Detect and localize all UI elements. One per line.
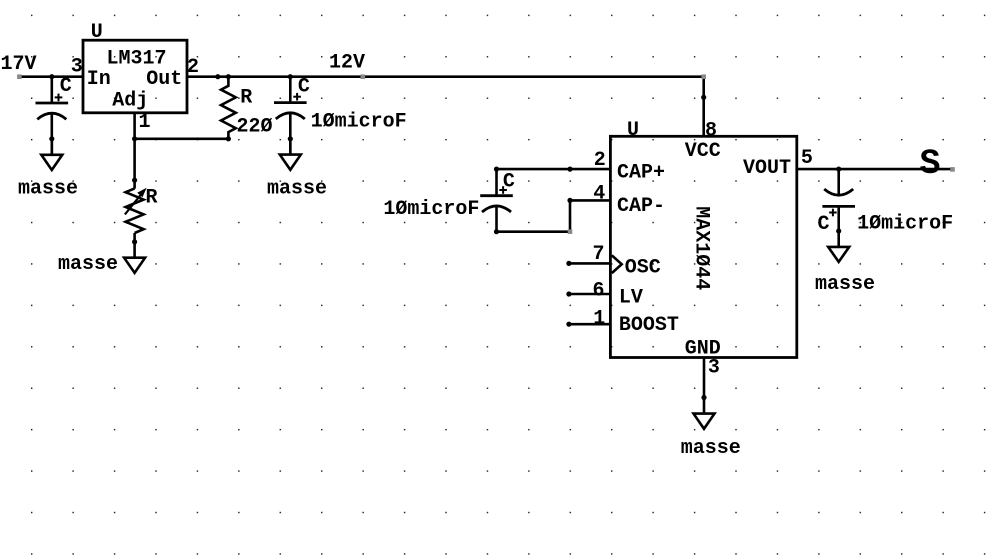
svg-text:In: In [87, 68, 111, 91]
svg-text:U: U [91, 21, 103, 44]
junction C3 bottom [494, 229, 499, 234]
wire end marker S [950, 167, 955, 172]
junction RV1 bottom [132, 239, 137, 244]
pin 7 end dot [566, 261, 571, 266]
svg-text:5: 5 [801, 147, 813, 170]
pin 4 wire CAP- [570, 199, 610, 202]
wire anchor marker 12V [361, 74, 366, 79]
junction C4 top [836, 167, 841, 172]
svg-text:CAP-: CAP- [617, 195, 665, 218]
svg-text:3: 3 [708, 357, 720, 380]
svg-text:6: 6 [593, 280, 605, 303]
svg-text:1: 1 [593, 308, 605, 331]
pin 3 wire [703, 358, 706, 414]
pin 1 wire [569, 323, 611, 326]
junction capacitor C2 top [288, 74, 293, 79]
svg-text:3: 3 [71, 55, 83, 78]
capacitor C3 [480, 169, 513, 232]
junction C1 bottom [49, 136, 54, 141]
junction C2 bottom [288, 136, 293, 141]
svg-text:1: 1 [139, 111, 151, 134]
svg-text:Adj: Adj [112, 90, 148, 113]
wire VCC drop [702, 77, 705, 137]
wire C3 bottom to pin4 drop [497, 230, 571, 233]
svg-text:R: R [240, 87, 252, 110]
pin 2 wire CAP+ [497, 168, 611, 171]
junction pin4 corner [567, 198, 572, 203]
svg-text:LV: LV [619, 286, 643, 309]
svg-text:VOUT: VOUT [743, 157, 791, 180]
clock wedge OSC [612, 255, 622, 273]
svg-text:masse: masse [815, 273, 875, 296]
svg-text:BOOST: BOOST [619, 314, 679, 337]
svg-text:masse: masse [18, 178, 78, 201]
svg-text:22Ø: 22Ø [237, 115, 273, 138]
junction on Out wire [215, 74, 220, 79]
svg-text:1ØmicroF: 1ØmicroF [383, 198, 479, 221]
svg-text:R: R [146, 186, 158, 209]
wire pin4 vertical drop [569, 200, 572, 231]
wire end marker pin4 drop [568, 229, 573, 234]
junction pin2 wire over pin4 corner [567, 167, 572, 172]
ground G5 [828, 247, 849, 262]
ground G3 [124, 258, 145, 273]
junction ground G4 [701, 395, 706, 400]
ground G2 [280, 139, 301, 170]
svg-text:masse: masse [681, 437, 741, 460]
wire corner marker [701, 74, 706, 79]
ground G1 [41, 139, 62, 170]
svg-text:OSC: OSC [625, 256, 661, 279]
wire end marker at 17V [17, 74, 22, 79]
svg-text:2: 2 [594, 149, 606, 172]
svg-text:VCC: VCC [685, 140, 721, 163]
pin 6 end dot [566, 291, 571, 296]
svg-text:C: C [503, 170, 515, 193]
svg-text:7: 7 [593, 243, 605, 266]
pin 6 wire [569, 293, 611, 296]
svg-text:12V: 12V [329, 51, 365, 74]
pin 7 wire [569, 262, 611, 265]
wire RV1 to ground [133, 233, 136, 258]
IC U2 MAX1044 body [610, 136, 796, 357]
capacitor C4 (mirrored) [822, 169, 855, 247]
junction R1 bottom [226, 136, 231, 141]
svg-text:4: 4 [593, 182, 605, 205]
svg-text:C: C [60, 75, 72, 98]
svg-text:S: S [920, 144, 941, 184]
junction C4 bottom [836, 228, 841, 233]
svg-text:1ØmicroF: 1ØmicroF [857, 213, 953, 236]
svg-text:8: 8 [705, 119, 717, 142]
wire Out pin to VCC corner (12V rail) [187, 75, 704, 78]
junction capacitor C1 top [49, 74, 54, 79]
svg-text:17V: 17V [1, 53, 37, 76]
wire Adj junction to R1 bottom [135, 138, 229, 141]
pin 1 end dot [566, 322, 571, 327]
svg-text:CAP+: CAP+ [617, 162, 665, 185]
junction C3 top [494, 167, 499, 172]
wire 17V to LM317 In pin [19, 75, 83, 78]
svg-text:masse: masse [267, 178, 327, 201]
svg-text:MAX1Ø44: MAX1Ø44 [690, 206, 713, 290]
junction Adj [132, 136, 137, 141]
svg-text:C: C [818, 213, 830, 236]
junction potentiometer top [132, 178, 137, 183]
ground G4 [694, 414, 715, 429]
pin 5 wire VOUT to S [797, 168, 953, 171]
svg-text:1ØmicroF: 1ØmicroF [311, 111, 407, 134]
junction resistor R1 top [226, 74, 231, 79]
svg-text:Out: Out [146, 68, 182, 91]
svg-text:masse: masse [58, 253, 118, 276]
IC U1 LM317 body [83, 40, 187, 113]
svg-text:U: U [627, 119, 639, 142]
svg-text:C: C [298, 76, 310, 99]
potentiometer RV1 [125, 188, 147, 233]
capacitor C2 [274, 77, 307, 155]
capacitor C1 [36, 77, 69, 155]
wire Adj pin down to potentiometer [133, 113, 136, 189]
junction on VCC wire [701, 95, 706, 100]
resistor R1 [221, 77, 236, 139]
